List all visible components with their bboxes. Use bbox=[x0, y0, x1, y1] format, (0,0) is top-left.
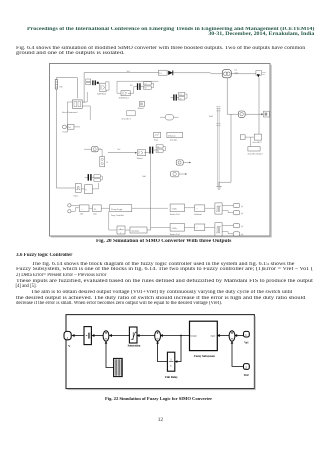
svg-text:Io1: Io1 bbox=[68, 127, 71, 129]
wire junction to unit delay bbox=[175, 336, 181, 362]
svg-text:R4: R4 bbox=[157, 151, 159, 153]
svg-text:1: 1 bbox=[66, 336, 68, 340]
IGBT block 2 bbox=[121, 91, 130, 96]
wire saturation to sum1 bbox=[109, 335, 129, 337]
svg-text:C4: C4 bbox=[157, 146, 159, 148]
conversion block row2 bbox=[195, 224, 205, 231]
svg-text:C1: C1 bbox=[106, 162, 108, 164]
wire C3 cluster bbox=[171, 94, 188, 98]
heading 3.6 bbox=[16, 253, 72, 258]
page number bbox=[158, 417, 163, 423]
scope block bbox=[154, 132, 161, 137]
from port circle bbox=[63, 125, 67, 129]
svg-text:C3: C3 bbox=[179, 94, 181, 96]
capacitor C1 bbox=[100, 157, 105, 167]
sum junction 2 bbox=[155, 331, 161, 341]
wire unit delay to sum2 bbox=[158, 342, 168, 362]
svg-text:Linear Transformer1: Linear Transformer1 bbox=[62, 111, 78, 114]
labels row2 ports bbox=[241, 225, 243, 236]
wire row2 feed bbox=[151, 227, 170, 229]
figure 20 outer border bbox=[50, 64, 271, 237]
wire row1 outputs bbox=[222, 206, 233, 213]
svg-text:R3: R3 bbox=[179, 98, 181, 100]
probe tick marks bbox=[216, 107, 220, 126]
block R2 bbox=[144, 86, 152, 90]
wire gain to outport bbox=[72, 335, 84, 337]
svg-text:Mosfet1: Mosfet1 bbox=[137, 157, 143, 160]
wire sum to gain bbox=[89, 207, 92, 209]
wire down to isolated load bbox=[258, 77, 260, 134]
svg-text:Input: Input bbox=[211, 335, 216, 337]
wire row1 ab bbox=[185, 207, 195, 209]
svg-text:Scope: Scope bbox=[154, 139, 159, 141]
svg-text:1/300s: 1/300s bbox=[172, 228, 178, 230]
junction dot fuzzy output bbox=[180, 335, 182, 337]
svg-text:Series RLC2: Series RLC2 bbox=[122, 119, 131, 121]
sum block bbox=[79, 205, 89, 212]
gain block bbox=[93, 205, 102, 212]
wire row2 bc bbox=[205, 226, 215, 228]
svg-text:Gain: Gain bbox=[93, 214, 97, 216]
wire secondary riser bbox=[84, 73, 158, 103]
diode D1 plates bbox=[88, 174, 92, 181]
svg-text:Transfer Fcn2: Transfer Fcn2 bbox=[170, 233, 180, 236]
svg-text:Mosfet2: Mosfet2 bbox=[138, 107, 144, 110]
sum junction 1 bbox=[103, 331, 109, 341]
voltage probe lines Vab2 bbox=[217, 108, 219, 186]
svg-text:Discrete: Discrete bbox=[168, 135, 175, 137]
wire Vo1 into mosfet cluster bbox=[108, 152, 135, 154]
svg-text:Fuzzy Subsystem: Fuzzy Subsystem bbox=[194, 355, 215, 358]
unit delay block bbox=[167, 352, 174, 371]
svg-text:IGBT/Diode2: IGBT/Diode2 bbox=[119, 97, 129, 99]
wire to capacitor C2 bbox=[134, 83, 154, 87]
svg-text:g2: g2 bbox=[241, 212, 243, 215]
svg-text:IGBT/Diode: IGBT/Diode bbox=[97, 93, 106, 95]
wire from port bbox=[66, 126, 80, 128]
conversion block row1 bbox=[195, 205, 205, 212]
svg-text:R2: R2 bbox=[144, 88, 146, 90]
wire center rail down bbox=[147, 154, 151, 230]
block L2a bbox=[86, 79, 91, 81]
svg-text:Pulse1: Pulse1 bbox=[74, 195, 79, 197]
svg-text:Vref: Vref bbox=[244, 374, 249, 377]
wire sum2 to saturation bbox=[137, 335, 154, 337]
caption fig 20 bbox=[96, 239, 231, 244]
block small load bbox=[240, 135, 245, 140]
svg-text:Io2: Io2 bbox=[235, 70, 237, 72]
block L2b bbox=[86, 82, 91, 84]
fuzzy paragraph bbox=[16, 262, 294, 267]
sum junction 3 bbox=[229, 331, 235, 341]
transformer T1 bbox=[72, 100, 82, 108]
unit delay block fig20 bbox=[117, 226, 125, 234]
svg-text:Series RLC3: Series RLC3 bbox=[252, 142, 261, 144]
svg-text:z: z bbox=[120, 232, 121, 234]
svg-text:From2: From2 bbox=[63, 131, 68, 133]
svg-text:g1: g1 bbox=[241, 205, 243, 208]
block R4 bbox=[156, 149, 163, 153]
wire battery bottom rail bbox=[56, 90, 75, 188]
block C2 bbox=[144, 82, 152, 86]
wire fuzzy output to sum2 bbox=[161, 335, 190, 337]
svg-text:g4: g4 bbox=[241, 233, 243, 236]
header line 1 and 2 (green) bbox=[27, 27, 314, 37]
svg-text:Vab1: Vab1 bbox=[142, 176, 146, 178]
block load R bbox=[248, 147, 260, 151]
inport Vref bbox=[244, 364, 250, 370]
outport row2 bottom bbox=[233, 232, 240, 236]
svg-text:Vab2: Vab2 bbox=[209, 116, 213, 118]
caption fig 22 bbox=[105, 396, 212, 401]
block C4 bbox=[156, 145, 163, 149]
wire inports to sum bbox=[71, 205, 79, 211]
powergui block bbox=[167, 132, 183, 137]
wire CM3 rail bbox=[219, 78, 238, 182]
intro paragraph bbox=[16, 46, 305, 51]
svg-text:Add: Add bbox=[80, 213, 83, 216]
current sensor CM4 bbox=[176, 160, 183, 165]
pulse generator block bbox=[75, 184, 81, 193]
pwm block row2 bbox=[215, 223, 222, 236]
svg-text:Transfer Fcn1: Transfer Fcn1 bbox=[170, 213, 180, 216]
wire CM1 left bbox=[84, 149, 102, 157]
wire gain to fuzzy bbox=[101, 207, 109, 209]
svg-text:g3: g3 bbox=[241, 225, 243, 228]
svg-text:-K-: -K- bbox=[94, 209, 97, 211]
current sensor CM3 bbox=[238, 111, 245, 117]
block igbt A bbox=[100, 83, 106, 91]
block R5 bbox=[94, 179, 100, 182]
memory block striped bbox=[114, 358, 123, 376]
svg-text:Series RLC Branch3: Series RLC Branch3 bbox=[248, 154, 263, 156]
svg-text:Fuzzy Logic: Fuzzy Logic bbox=[111, 208, 122, 211]
svg-text:Goto: Goto bbox=[235, 72, 239, 74]
voltage measurement block bbox=[256, 71, 266, 78]
figure 22 shadow bbox=[68, 316, 256, 389]
wire row2 outputs bbox=[222, 226, 233, 234]
svg-text:Unit Delay: Unit Delay bbox=[165, 376, 178, 379]
svg-text:repeating: repeating bbox=[131, 229, 138, 232]
svg-text:C2: C2 bbox=[144, 83, 146, 85]
wire memory to sum1 bbox=[106, 342, 113, 368]
svg-text:V: V bbox=[68, 345, 70, 348]
svg-text:Relational: Relational bbox=[194, 214, 202, 216]
block C5 bbox=[94, 175, 100, 178]
block R3 bbox=[179, 97, 185, 101]
wire battery loop bbox=[56, 78, 77, 99]
outport row1 bottom bbox=[233, 211, 240, 215]
wire diode to sensor bbox=[173, 73, 222, 74]
wire row2 ab bbox=[185, 226, 195, 228]
current sensor CM1 bbox=[92, 147, 99, 152]
svg-text:1: 1 bbox=[120, 228, 121, 230]
fuzzy controller block bbox=[110, 205, 132, 212]
terminator block CM3 bbox=[263, 111, 269, 117]
svg-text:Vo1: Vo1 bbox=[244, 342, 249, 345]
block series RLC2 bbox=[122, 111, 136, 121]
wire C4 links bbox=[146, 146, 166, 152]
wire D1 cluster bbox=[85, 176, 103, 180]
wire IGBT to C2 bbox=[117, 81, 159, 93]
pwm block row1 bbox=[215, 203, 222, 214]
wire sum3 to fuzzy input bbox=[218, 335, 229, 337]
capacitor C3 plates bbox=[173, 94, 177, 100]
wire unit delay links bbox=[109, 211, 130, 230]
inductor L2 bbox=[159, 70, 168, 75]
current sensor CM2 bbox=[222, 70, 231, 78]
inport 2 circle bbox=[68, 210, 71, 213]
block C3 bbox=[179, 92, 185, 96]
wire sum1 to gain bbox=[92, 335, 103, 337]
battery Vdc1 bbox=[55, 80, 57, 90]
labels row1 ports bbox=[241, 205, 243, 215]
svg-text:1/300s: 1/300s bbox=[172, 208, 178, 210]
label Io2 bbox=[235, 70, 239, 75]
wire pulse to driver bbox=[81, 183, 98, 189]
goto block Io1 bbox=[68, 124, 74, 129]
inport Vo1 bbox=[244, 331, 250, 337]
wire row1 bc bbox=[205, 207, 215, 209]
wire CM3 output arrow bbox=[245, 113, 261, 115]
capacitor C2 plates bbox=[137, 83, 141, 90]
wire sensor to measurement bbox=[232, 73, 257, 75]
figure 20 shadow bbox=[51, 65, 272, 237]
mosfet M2 bbox=[139, 102, 144, 107]
outport V port bbox=[64, 331, 71, 339]
fuzzy subsystem block bbox=[190, 321, 218, 350]
svg-text:Output: Output bbox=[191, 335, 197, 337]
saturation block row1 bbox=[170, 204, 184, 212]
inport 1 circle bbox=[68, 204, 71, 207]
wire inport Vo1 to sum3 bbox=[235, 335, 243, 337]
svg-text:Vdc: Vdc bbox=[59, 87, 63, 89]
figure 22 outer border bbox=[66, 315, 254, 389]
ground symbol bbox=[216, 182, 221, 189]
svg-text:+-: +- bbox=[81, 208, 83, 211]
outport row2 top bbox=[233, 224, 240, 228]
capacitor CA plates bbox=[92, 80, 99, 85]
svg-text:Saturation: Saturation bbox=[128, 345, 141, 348]
saturation block bbox=[129, 327, 137, 343]
gain block bbox=[84, 327, 91, 345]
diode D3 bbox=[168, 70, 173, 75]
wire CM5 arrow bbox=[179, 173, 185, 175]
wire CM4 arrow bbox=[183, 162, 189, 164]
saturation block row2 bbox=[170, 224, 184, 232]
svg-text:D2: D2 bbox=[130, 85, 132, 87]
wire Vref to sum3 bbox=[232, 342, 243, 367]
svg-text:powergui: powergui bbox=[170, 138, 177, 141]
svg-text:Vo1: Vo1 bbox=[117, 149, 120, 151]
repeating block bbox=[130, 227, 147, 233]
driver block bbox=[85, 185, 93, 194]
capacitor C4 plates bbox=[149, 147, 153, 154]
wire load links bbox=[245, 137, 254, 147]
svg-text:L2: L2 bbox=[159, 73, 161, 75]
transformer side block bbox=[105, 82, 109, 90]
wire fuzzy out bbox=[132, 207, 168, 209]
svg-text:Fuzzy Controller1: Fuzzy Controller1 bbox=[111, 215, 124, 217]
svg-text:g: g bbox=[85, 188, 86, 191]
logical operator block bbox=[160, 114, 179, 120]
wire transformer left bbox=[67, 92, 90, 132]
block RLC3 bbox=[254, 134, 261, 140]
current sensor CM5 bbox=[171, 171, 179, 177]
mosfet M1 block bbox=[137, 150, 146, 156]
outport row1 top bbox=[233, 203, 240, 207]
